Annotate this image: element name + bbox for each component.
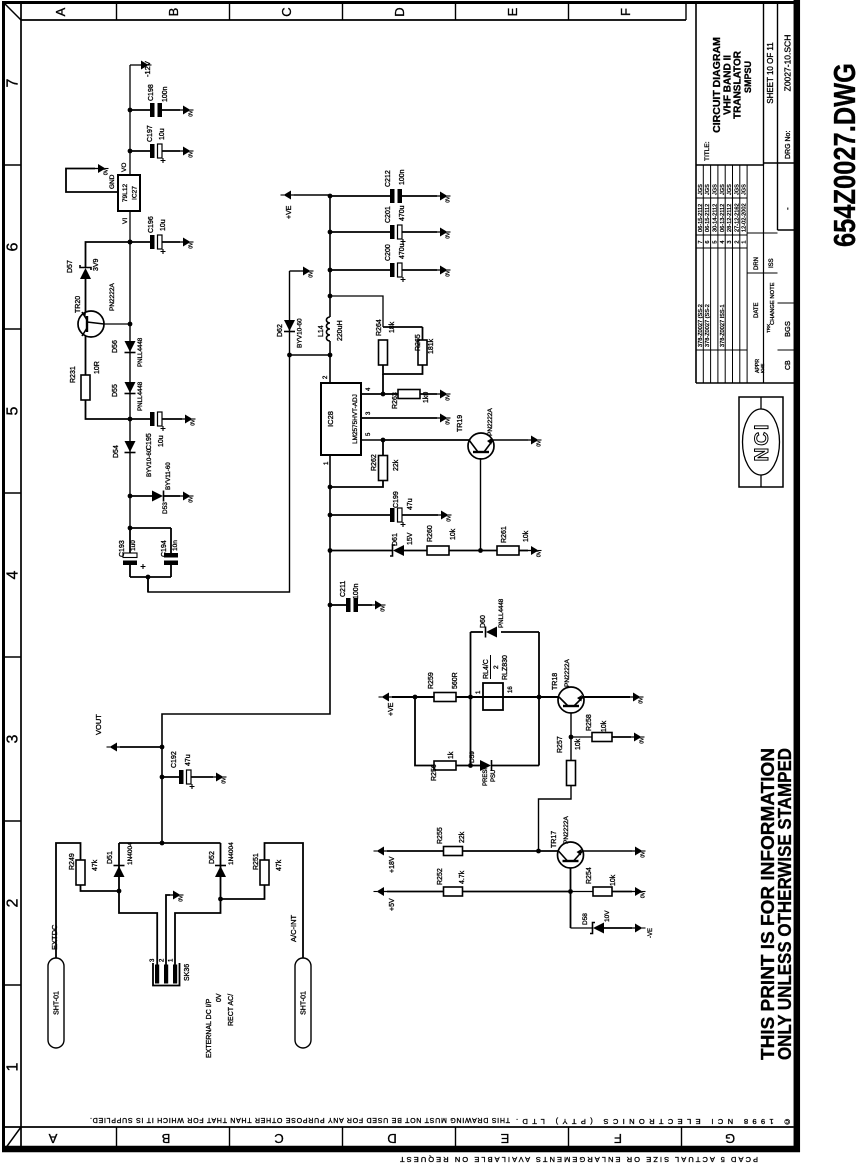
svg-text:470u: 470u xyxy=(399,243,406,259)
svg-text:R257: R257 xyxy=(557,736,564,753)
C211 labels xyxy=(340,581,360,599)
wire VO rail xyxy=(128,65,133,175)
GND pin label xyxy=(109,174,116,189)
svg-text:0V: 0V xyxy=(447,515,453,522)
svg-text:1N4004: 1N4004 xyxy=(127,842,134,865)
IC28 LM2575HVT-ADJ xyxy=(321,383,361,455)
ground for R254 xyxy=(632,887,647,898)
svg-text:PN2222A: PN2222A xyxy=(564,659,571,687)
flag -12V xyxy=(130,61,152,78)
D54 labels xyxy=(113,445,153,477)
svg-text:220uH: 220uH xyxy=(337,320,344,341)
svg-text:C195: C195 xyxy=(146,433,153,450)
resistor R259 xyxy=(434,693,483,702)
svg-text:ISS: ISS xyxy=(769,258,775,268)
svg-text:F: F xyxy=(614,1131,622,1146)
svg-text:3: 3 xyxy=(727,240,733,243)
svg-text:R265: R265 xyxy=(415,334,422,351)
transistor TR18 xyxy=(558,687,584,713)
svg-text:C193: C193 xyxy=(119,540,126,557)
svg-text:C198: C198 xyxy=(148,84,155,101)
svg-text:GND: GND xyxy=(109,174,116,189)
connector SK36 xyxy=(153,963,191,986)
C194 labels xyxy=(161,540,179,557)
svg-text:TRANSLATOR: TRANSLATOR xyxy=(733,50,744,119)
C197 labels xyxy=(147,125,166,142)
D60 labels xyxy=(480,598,505,628)
ground TR19 emitter xyxy=(528,436,543,447)
flag +5V xyxy=(374,887,397,911)
svg-text:A/C-INT: A/C-INT xyxy=(289,915,298,943)
svg-text:A: A xyxy=(48,1131,57,1146)
svg-text:47k: 47k xyxy=(276,859,283,871)
svg-text:10k: 10k xyxy=(450,528,457,540)
svg-text:18k: 18k xyxy=(389,321,396,333)
zener D58 xyxy=(571,923,633,934)
wire TR18 base xyxy=(569,713,574,765)
svg-text:PN2222A: PN2222A xyxy=(487,408,494,436)
svg-text:R252: R252 xyxy=(437,868,444,885)
wire +VE chain xyxy=(392,695,434,700)
svg-text:7: 7 xyxy=(698,240,704,243)
svg-text:R262: R262 xyxy=(371,454,378,471)
svg-text:-12V: -12V xyxy=(143,61,152,77)
relay RL4 coil xyxy=(483,683,503,710)
wire TR17 emitter xyxy=(582,850,633,852)
svg-text:CB: CB xyxy=(785,360,792,370)
big stamp text line 1 xyxy=(758,748,778,1060)
TR20 labels xyxy=(75,283,116,313)
svg-text:© 1998 NCI ELECTRONICS (PTY: © 1998 NCI ELECTRONICS (PTY) LTD. xyxy=(516,1117,790,1126)
C198 labels xyxy=(148,84,169,102)
R249 labels xyxy=(69,853,99,871)
D61 labels xyxy=(392,532,414,546)
svg-text:THIS DRAWING MUST NOT BE USED: THIS DRAWING MUST NOT BE USED FOR ANY PU… xyxy=(90,1116,510,1123)
capacitor C198 xyxy=(130,103,180,117)
diode D60 xyxy=(486,627,498,638)
C192 labels xyxy=(171,751,192,768)
svg-text:TR19: TR19 xyxy=(457,415,464,432)
resistor R262 xyxy=(328,440,388,489)
capacitor C199 xyxy=(328,508,438,527)
svg-text:BGS: BGS xyxy=(783,321,792,337)
svg-text:10u: 10u xyxy=(158,435,165,447)
svg-text:10k: 10k xyxy=(575,738,582,750)
zone ticks left band xyxy=(117,1127,682,1148)
R258 labels xyxy=(586,714,608,732)
svg-text:D53: D53 xyxy=(162,502,169,514)
svg-text:0V: 0V xyxy=(191,419,197,426)
svg-text:+VE: +VE xyxy=(286,205,293,219)
svg-text:E: E xyxy=(500,1131,509,1146)
zone ticks top band xyxy=(4,165,22,985)
svg-text:B: B xyxy=(162,1131,171,1146)
svg-text:CIRCUIT DIAGRAM: CIRCUIT DIAGRAM xyxy=(711,37,723,133)
svg-text:47u: 47u xyxy=(407,498,414,510)
diode D56 xyxy=(125,341,136,353)
diode D53 shunt xyxy=(130,491,180,502)
revision table rows xyxy=(698,184,748,347)
svg-text:0V: 0V xyxy=(189,151,195,158)
ground for C199 xyxy=(438,511,453,522)
ground 0V at IC27 xyxy=(95,164,110,175)
svg-text:D54: D54 xyxy=(113,445,120,458)
svg-text:D60: D60 xyxy=(480,615,487,628)
svg-text:R231: R231 xyxy=(70,366,77,383)
wire +18V chain xyxy=(387,850,444,852)
svg-text:PNLL4448: PNLL4448 xyxy=(498,598,505,628)
svg-text:RL4/C: RL4/C xyxy=(483,659,490,679)
svg-text:3V9: 3V9 xyxy=(93,258,100,271)
svg-text:-: - xyxy=(783,207,792,210)
svg-text:47u: 47u xyxy=(185,754,192,766)
svg-text:100n: 100n xyxy=(399,169,406,185)
resistor R251 xyxy=(221,843,304,958)
zener D61 xyxy=(328,545,427,556)
svg-text:DATE: DATE xyxy=(754,302,760,318)
wire pin2 to 0V xyxy=(166,895,170,965)
R263 labels xyxy=(392,392,430,409)
svg-text:22k: 22k xyxy=(459,831,466,843)
resistor R257 xyxy=(567,761,576,786)
wire switch node (pin2) xyxy=(328,341,333,383)
svg-text:EXTDC: EXTDC xyxy=(50,924,59,950)
transistor TR20 xyxy=(78,311,130,337)
R257 labels xyxy=(557,736,582,753)
D58 labels xyxy=(582,910,611,925)
capacitor C212 xyxy=(330,189,437,203)
big stamp text line 2 xyxy=(775,748,795,1060)
svg-text:JGS: JGS xyxy=(727,184,733,195)
R261 labels xyxy=(501,526,530,543)
ground for C197 xyxy=(180,147,195,158)
svg-text:R258: R258 xyxy=(586,714,593,731)
svg-text:JGS: JGS xyxy=(713,184,719,195)
svg-text:TR18: TR18 xyxy=(552,673,559,690)
svg-text:5: 5 xyxy=(713,240,719,243)
svg-text:B: B xyxy=(166,8,181,17)
svg-text:RECT AC/: RECT AC/ xyxy=(228,994,235,1026)
svg-text:0V: 0V xyxy=(222,777,228,784)
transistor TR19 xyxy=(468,433,494,459)
svg-text:EXTERNAL DC I/P: EXTERNAL DC I/P xyxy=(206,998,213,1058)
side note: pcad caption xyxy=(400,1155,758,1163)
node: D51 anode junction xyxy=(117,889,122,894)
wire catch diode line xyxy=(148,271,290,592)
svg-text:D56: D56 xyxy=(112,340,119,353)
svg-text:NCI: NCI xyxy=(752,423,773,462)
svg-text:ONLY UNLESS OTHERWISE STAMPED: ONLY UNLESS OTHERWISE STAMPED xyxy=(775,748,795,1060)
NCI logo box xyxy=(739,397,783,487)
capacitor C194 xyxy=(164,553,178,565)
svg-text:F: F xyxy=(618,8,633,16)
ground for R261 xyxy=(528,546,543,557)
wire pin3 ground xyxy=(361,417,437,419)
D57 labels xyxy=(67,258,100,273)
flag VOUT xyxy=(94,714,164,752)
zone letters A-F right band xyxy=(53,7,633,16)
svg-text:PN2222A: PN2222A xyxy=(109,283,116,311)
wire pin5 on/off xyxy=(361,438,470,443)
svg-text:16: 16 xyxy=(508,686,514,693)
svg-text:D61: D61 xyxy=(392,533,399,546)
svg-text:0V: 0V xyxy=(639,697,645,704)
svg-text:378-Z0027 ISS-1: 378-Z0027 ISS-1 xyxy=(720,304,726,347)
D53 labels xyxy=(162,462,172,514)
svg-text:JGS: JGS xyxy=(705,184,711,195)
resistor R265 xyxy=(418,340,427,365)
flag +VE relay xyxy=(379,693,396,717)
svg-text:4: 4 xyxy=(720,240,726,243)
resistor R261 xyxy=(497,546,528,555)
svg-text:D57: D57 xyxy=(67,260,74,273)
svg-text:0V: 0V xyxy=(104,168,110,175)
flag +VE output xyxy=(281,191,295,220)
svg-text:0V: 0V xyxy=(446,394,452,401)
resistor R264 xyxy=(379,340,388,365)
R231 labels xyxy=(70,361,101,383)
svg-text:100n: 100n xyxy=(353,583,360,599)
R252 labels xyxy=(437,827,466,844)
net label A/C-INT xyxy=(289,915,298,943)
diode D54 xyxy=(125,441,136,453)
resistor R260 xyxy=(427,546,497,555)
svg-text:22k: 22k xyxy=(393,459,400,471)
svg-text:R249: R249 xyxy=(69,853,76,870)
svg-text:BYV10-60: BYV10-60 xyxy=(146,448,153,477)
svg-text:R261: R261 xyxy=(501,526,508,543)
svg-text:C200: C200 xyxy=(385,244,392,261)
R254 labels xyxy=(586,867,617,886)
wire VI rail to IC27 xyxy=(129,211,131,242)
svg-text:R264: R264 xyxy=(376,319,383,336)
filename text 654Z0027.DWG xyxy=(827,63,858,247)
svg-text:654Z0027.DWG: 654Z0027.DWG xyxy=(827,63,858,247)
drg no cell xyxy=(783,35,793,210)
svg-text:C199: C199 xyxy=(393,491,400,508)
ground for C212 xyxy=(437,192,452,203)
svg-text:TR17: TR17 xyxy=(551,831,558,848)
svg-text:5: 5 xyxy=(5,406,22,415)
svg-text:KHE: KHE xyxy=(760,364,765,373)
svg-text:PN2222A: PN2222A xyxy=(563,816,570,844)
zone numbers 1-7 top band xyxy=(5,78,22,1071)
svg-text:C192: C192 xyxy=(171,751,178,768)
D51 labels xyxy=(107,842,134,865)
svg-text:BYV10-60: BYV10-60 xyxy=(297,318,304,348)
inductor L14 xyxy=(326,296,330,341)
net label EXTDC xyxy=(50,924,59,950)
wire TR17 base xyxy=(568,868,573,929)
svg-text:470u: 470u xyxy=(399,205,406,221)
svg-text:SMPSU: SMPSU xyxy=(743,61,753,93)
svg-text:1: 1 xyxy=(5,1062,22,1071)
svg-text:JGS: JGS xyxy=(734,184,740,195)
side note: copyright xyxy=(516,1117,790,1126)
SK36 pin name labels xyxy=(206,993,235,1058)
wire pin4 feedback xyxy=(361,392,385,397)
flag SHT-01 (A/C-INT) xyxy=(295,958,311,1048)
ground for R258 xyxy=(631,733,646,744)
svg-text:RLZ830: RLZ830 xyxy=(502,655,509,680)
svg-text:10k: 10k xyxy=(523,530,530,542)
svg-text:PNLL4448: PNLL4448 xyxy=(137,381,144,411)
svg-text:SK36: SK36 xyxy=(184,964,191,981)
svg-text:VO: VO xyxy=(121,163,128,172)
svg-text:1: 1 xyxy=(742,240,748,243)
wire pin1 to bridge xyxy=(175,843,221,965)
ground for D53 xyxy=(180,492,195,503)
TR19 labels xyxy=(457,408,494,436)
led D59 xyxy=(471,760,540,771)
svg-text:D: D xyxy=(392,7,407,16)
flag +18V xyxy=(374,847,397,874)
resistor R249 xyxy=(56,843,119,958)
svg-text:100n: 100n xyxy=(162,86,169,102)
snubber loop wires xyxy=(471,632,540,766)
svg-text:47k: 47k xyxy=(92,859,99,871)
GND pin loop to 0V xyxy=(66,169,118,193)
node: D52 anode junction xyxy=(218,897,223,902)
svg-text:D51: D51 xyxy=(107,851,114,864)
ground for C196 xyxy=(180,238,195,249)
zone ticks right band xyxy=(117,3,687,20)
svg-text:0V: 0V xyxy=(446,270,452,277)
svg-text:560R: 560R xyxy=(452,672,459,689)
svg-text:10R: 10R xyxy=(94,361,101,374)
svg-text:D62: D62 xyxy=(277,324,284,337)
svg-text:+18V: +18V xyxy=(389,856,396,873)
svg-text:1u0: 1u0 xyxy=(130,540,137,551)
wire output rail xyxy=(294,194,332,299)
svg-text:4.7k: 4.7k xyxy=(459,870,466,884)
C212 labels xyxy=(385,169,406,187)
svg-text:378-Z0027 (SS-2: 378-Z0027 (SS-2 xyxy=(698,304,704,347)
svg-text:6: 6 xyxy=(705,240,711,243)
wire relay to TR18 xyxy=(503,695,559,700)
wire R256 branch xyxy=(415,697,434,766)
ground 0V bridge center xyxy=(170,891,185,902)
wire +5V chain xyxy=(387,891,444,893)
svg-text:IC28: IC28 xyxy=(326,411,335,427)
transistor TR17 xyxy=(558,842,584,868)
revision table header rows xyxy=(754,257,792,373)
svg-text:0V: 0V xyxy=(216,993,223,1002)
ground for C200 xyxy=(437,266,452,277)
svg-text:10n: 10n xyxy=(172,540,179,551)
R264 labels xyxy=(376,319,396,336)
svg-text:0V: 0V xyxy=(309,271,315,278)
svg-text:JGS: JGS xyxy=(720,184,726,195)
svg-text:15V: 15V xyxy=(407,532,414,545)
svg-text:D52: D52 xyxy=(209,851,216,864)
svg-text:G: G xyxy=(725,1131,735,1146)
C193 labels xyxy=(119,540,137,557)
side note: drawing usage xyxy=(90,1116,510,1123)
svg-text:10u: 10u xyxy=(159,128,166,140)
IC27 79L12 xyxy=(118,175,140,211)
svg-text:1N4004: 1N4004 xyxy=(228,842,235,865)
svg-text:1k: 1k xyxy=(448,751,455,759)
R251 labels xyxy=(253,853,283,871)
svg-text:R254: R254 xyxy=(586,867,593,884)
svg-text:0V: 0V xyxy=(189,496,195,503)
D52 labels xyxy=(209,842,235,865)
wire TR19 base xyxy=(480,458,482,551)
resistor R263 xyxy=(383,390,437,399)
sheet cell xyxy=(766,42,775,104)
title cell text xyxy=(704,37,753,161)
svg-text:4: 4 xyxy=(5,570,22,579)
ground for R263 xyxy=(437,390,452,401)
C196 labels xyxy=(148,216,167,233)
wire TR19 emitter xyxy=(492,439,528,441)
C199 labels xyxy=(393,491,414,510)
svg-text:JGS: JGS xyxy=(742,184,748,195)
svg-text:06-15-2112: 06-15-2112 xyxy=(705,204,711,232)
svg-text:28-12-2112: 28-12-2112 xyxy=(727,204,733,232)
svg-text:10V: 10V xyxy=(604,910,611,922)
svg-text:79L12: 79L12 xyxy=(122,184,129,203)
svg-text:D59: D59 xyxy=(469,751,476,763)
svg-text:+5V: +5V xyxy=(389,898,396,911)
svg-text:3: 3 xyxy=(5,734,22,743)
wire pin3 to bridge xyxy=(119,843,157,965)
svg-text:2: 2 xyxy=(5,898,22,907)
svg-text:DRG No:: DRG No: xyxy=(785,131,792,159)
ground TR17 emitter xyxy=(632,847,647,858)
svg-text:C212: C212 xyxy=(385,170,392,187)
capacitor C211 xyxy=(328,598,372,612)
wire freewheel link xyxy=(287,353,330,358)
diode D55 xyxy=(125,382,136,394)
TR18 labels xyxy=(552,659,571,690)
resistor R254 xyxy=(571,887,633,896)
wire TR18 emitter xyxy=(582,696,630,698)
svg-text:-VE: -VE xyxy=(648,928,654,938)
diode D52 xyxy=(215,866,226,878)
svg-text:6: 6 xyxy=(5,242,22,251)
TR17 labels xyxy=(551,816,570,848)
resistor R258 xyxy=(571,733,631,742)
svg-text:0V: 0V xyxy=(189,110,195,117)
svg-text:10u: 10u xyxy=(160,219,167,231)
resistor R256 xyxy=(434,761,473,770)
capacitor C200 xyxy=(330,263,437,282)
capacitor C193 xyxy=(123,553,146,569)
svg-text:E: E xyxy=(505,7,520,16)
diode D51 xyxy=(114,866,125,878)
svg-text:10k: 10k xyxy=(601,720,608,732)
svg-text:0V: 0V xyxy=(381,605,387,612)
svg-text:TITLE:: TITLE: xyxy=(704,141,711,161)
svg-text:1k0: 1k0 xyxy=(423,392,430,403)
svg-text:VI: VI xyxy=(122,218,129,224)
svg-text:378-Z0027 (SS-2: 378-Z0027 (SS-2 xyxy=(705,304,711,347)
svg-text:IC27: IC27 xyxy=(132,186,139,200)
svg-text:0V: 0V xyxy=(537,440,543,447)
capacitor C196 xyxy=(128,235,180,254)
svg-text:A: A xyxy=(53,7,68,16)
ground for C201 xyxy=(437,228,452,239)
capacitor C201 xyxy=(330,225,437,244)
ground for C211 xyxy=(372,601,387,612)
svg-text:0V: 0V xyxy=(640,737,646,744)
R256 labels xyxy=(431,751,455,781)
flag -VE at D58 xyxy=(632,924,654,939)
svg-text:2: 2 xyxy=(734,240,740,243)
wire -V rail xyxy=(128,240,133,531)
